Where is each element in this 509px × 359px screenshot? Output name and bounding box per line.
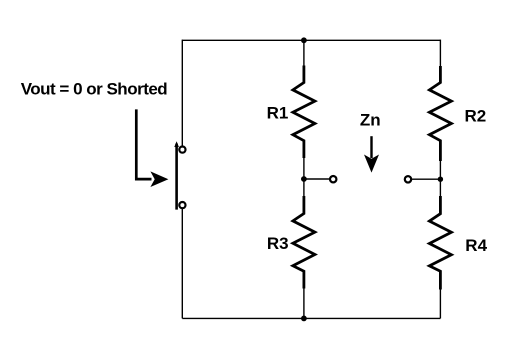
annotation arrow head pointing to switch: [150, 171, 168, 187]
junction dot: left mid node: [301, 176, 307, 182]
wire: bottom rail: [182, 317, 440, 319]
switch S1: blade tip: [174, 141, 179, 147]
junction dot: top node (R1 branch / top rail): [301, 37, 307, 43]
junction dot: bottom node (R3 / bottom rail): [301, 316, 307, 322]
wire: R1 bottom lead to left mid node and R3 top: [303, 158, 305, 197]
svg-text:R4: R4: [465, 236, 487, 255]
svg-text:R1: R1: [267, 103, 289, 122]
switch S1: closed blade bar: [175, 144, 178, 210]
svg-text:R2: R2: [465, 106, 487, 125]
resistor R1: [293, 66, 315, 159]
annotation arrow shaft pointing to switch: [136, 109, 151, 179]
wire: R4 bottom lead to bottom rail: [439, 289, 441, 318]
wire: right mid node stub to open terminal: [412, 178, 441, 180]
resistor R2: [429, 66, 451, 161]
wire: R3 bottom lead to bottom rail: [303, 288, 305, 318]
wire: right rail upper (top rail to R2): [439, 40, 441, 67]
junction dot: right mid node: [438, 177, 443, 182]
wire: top rail: [182, 39, 440, 41]
open terminal: left mid node: [330, 176, 336, 182]
switch S1: top terminal circle: [179, 147, 185, 153]
wire: left rail lower (switch bottom terminal to bottom rail): [181, 209, 183, 319]
open terminal: right mid node: [405, 176, 411, 182]
wire: left mid node stub to open terminal: [304, 178, 330, 180]
svg-text:Zn: Zn: [360, 110, 381, 129]
wire: R1 branch top (top node to R1): [303, 40, 305, 66]
wire: left rail upper (top rail to switch top terminal): [181, 40, 183, 147]
arrow: Zn direction head: [364, 155, 379, 173]
resistor R3: [293, 196, 315, 289]
svg-text:Vout = 0 or Shorted: Vout = 0 or Shorted: [21, 79, 168, 98]
resistor R4: [429, 196, 451, 290]
switch S1: bottom terminal circle: [179, 202, 185, 208]
arrow: Zn direction shaft: [370, 136, 372, 158]
svg-text:R3: R3: [267, 234, 289, 253]
wire: R2 bottom lead to right mid node and R4 top: [439, 161, 441, 197]
